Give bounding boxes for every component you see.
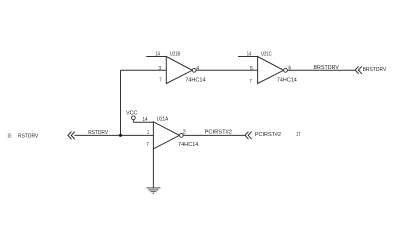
node off-page connector chevron RSTDRV (left) (68, 132, 75, 139)
wire U21A pin7 down to ground (152, 149, 154, 188)
node junction dot RSTDRV (119, 134, 122, 137)
wire vertical riser from node RSTDRV to U21B input (120, 70, 122, 135)
svg-text:7: 7 (159, 77, 161, 83)
svg-text:PCIRST#2: PCIRST#2 (205, 129, 233, 135)
svg-text:RSTDRV: RSTDRV (18, 133, 38, 139)
node off-page connector chevron BRSTDRV (355, 67, 361, 74)
svg-text:PCIRST#2: PCIRST#2 (255, 132, 281, 138)
power VCC circle symbol (132, 116, 136, 120)
svg-text:74HC14: 74HC14 (185, 78, 206, 84)
wire U21B input pin3 (121, 69, 167, 71)
svg-text:2: 2 (183, 129, 186, 135)
wire VCC stub down (132, 120, 134, 123)
svg-text:3: 3 (158, 66, 161, 72)
wire U21C output pin6 to BRSTDRV connector (287, 69, 355, 71)
svg-text:14: 14 (143, 117, 149, 123)
svg-text:74HC14: 74HC14 (178, 142, 199, 148)
svg-text:14: 14 (247, 52, 252, 58)
wire U21A output pin2 to PCIRST#2 connector (183, 134, 245, 136)
svg-text:7: 7 (250, 79, 252, 85)
svg-text:17: 17 (296, 132, 300, 138)
svg-text:RSTDRV: RSTDRV (88, 130, 108, 136)
op-amp U21C output bubble pin6 (284, 68, 288, 72)
op-amp U21B 74HC14 inverter triangle (166, 57, 192, 84)
wire U21C pin14 power stub (238, 56, 258, 58)
svg-text:14: 14 (155, 52, 160, 58)
svg-text:15: 15 (7, 133, 11, 139)
op-amp U21B output bubble pin4 (192, 68, 196, 72)
ground symbol (146, 188, 160, 194)
wire U21B pin14 power stub (146, 56, 166, 58)
svg-text:U21B: U21B (170, 51, 180, 57)
op-amp U21C 74HC14 inverter triangle (258, 57, 284, 84)
svg-text:U21C: U21C (261, 51, 272, 57)
op-amp U21A output bubble pin2 (179, 134, 183, 138)
svg-text:VCC: VCC (126, 110, 138, 116)
svg-text:BRSTDRV: BRSTDRV (314, 65, 340, 71)
op-amp U21A 74HC14 inverter triangle (153, 122, 179, 149)
wire U21B output pin4 to U21C input pin5 (196, 69, 258, 71)
wire VCC to U21A pin14 (133, 121, 153, 123)
wire RSTDRV net to U21A input pin1 (75, 134, 154, 136)
svg-text:5: 5 (250, 66, 253, 72)
svg-text:6: 6 (288, 65, 291, 71)
svg-text:7: 7 (146, 142, 148, 148)
svg-text:U21A: U21A (157, 117, 169, 123)
node off-page connector chevron PCIRST#2 (245, 132, 251, 139)
svg-text:1: 1 (147, 130, 149, 136)
svg-text:BRSTDRV: BRSTDRV (363, 67, 387, 73)
svg-text:74HC14: 74HC14 (277, 78, 298, 84)
